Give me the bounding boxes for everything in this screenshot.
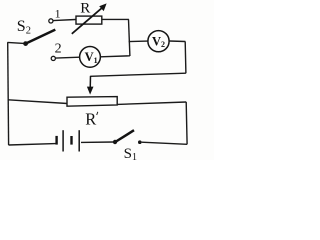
node contact 2 [51, 56, 55, 60]
voltmeter V1 [80, 47, 101, 68]
wire left T-junction to rheostat [8, 100, 67, 104]
svg-text:1: 1 [55, 7, 61, 21]
switch S2 pivot junction [23, 41, 28, 46]
switch S1 left contact [113, 140, 117, 144]
label R prime mark [97, 112, 98, 115]
battery cell 1 long plate [62, 130, 64, 151]
switch S2 blade [26, 30, 56, 44]
battery cell 1 short plate [55, 136, 57, 145]
wire V2 to right corner [169, 40, 185, 43]
wire bottom right to S1 [142, 142, 188, 144]
wire branch to V2 [129, 40, 148, 43]
rheostat slider arrow [87, 76, 94, 95]
wire horizontal to rheostat slider [90, 73, 186, 76]
svg-text:2: 2 [55, 42, 62, 57]
wire vertical right of R down to V1 level [129, 19, 130, 56]
variable resistor arrow through R [72, 3, 107, 33]
wire left vertical [7, 42, 10, 145]
wire R to right corner [102, 18, 129, 20]
rheostat R' box [67, 97, 117, 107]
wire contact 1 to R [53, 20, 75, 21]
wire right vertical lower [185, 102, 188, 144]
wire to V1 right lead [101, 56, 130, 57]
voltmeter V2 [148, 31, 169, 52]
battery cell 2 short plate [70, 136, 72, 145]
wire right vertical upper [184, 42, 187, 74]
svg-text:R: R [80, 0, 90, 16]
wire top-left horizontal to S2 pivot [8, 42, 27, 43]
svg-text:R: R [85, 109, 96, 128]
wire rheostat right lead [117, 102, 186, 104]
wire contact 2 to V1 [56, 56, 80, 59]
node contact 1 [49, 19, 53, 23]
wire bottom left to battery [9, 144, 56, 145]
battery cell 2 long plate [78, 130, 80, 151]
switch S1 right contact [138, 140, 142, 144]
switch S1 blade [115, 130, 134, 142]
resistor R box [76, 16, 102, 24]
wire S1 to battery [81, 141, 114, 143]
